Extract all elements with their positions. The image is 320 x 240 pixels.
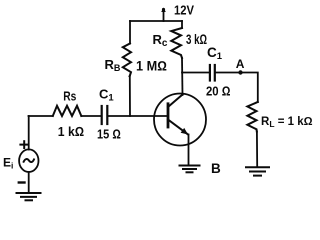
resistor RC 3 kohm bbox=[153, 28, 208, 58]
svg-text:20 Ω: 20 Ω bbox=[206, 83, 231, 98]
svg-text:RB: RB bbox=[105, 57, 121, 73]
wire input left segment bbox=[29, 115, 53, 117]
supply arrow 12V bbox=[161, 3, 194, 21]
wire RC top stub bbox=[181, 21, 183, 28]
ground (source) bbox=[17, 193, 41, 200]
svg-text:B: B bbox=[211, 161, 221, 176]
ground (RL) bbox=[246, 167, 269, 175]
resistor RL 1 kohm bbox=[247, 102, 312, 132]
svg-text:Ei: Ei bbox=[3, 156, 13, 171]
wire source bottom to ground bbox=[28, 172, 30, 193]
resistor Rs 1 kohm bbox=[53, 89, 84, 139]
wire top supply rail bbox=[130, 20, 182, 22]
ground (emitter) bbox=[180, 166, 200, 173]
capacitor C1 output bbox=[206, 45, 231, 98]
svg-text:12V: 12V bbox=[174, 3, 195, 17]
capacitor C1 input bbox=[97, 86, 121, 141]
wire base (capacitor to transistor base bar) bbox=[108, 115, 168, 117]
wire emitter to ground bbox=[188, 135, 190, 166]
wire capacitor to RL corner bbox=[215, 73, 257, 103]
wire collector output to capacitor bbox=[182, 72, 209, 74]
wire RB top stub bbox=[129, 21, 131, 44]
source Ei bbox=[3, 141, 39, 182]
svg-text:3 kΩ: 3 kΩ bbox=[186, 31, 207, 47]
wire collector (RC bottom through output junction into transistor) bbox=[181, 58, 184, 95]
wire RB bottom to base wire bbox=[129, 76, 131, 116]
transistor Q1 bbox=[154, 94, 206, 146]
wire Rs to input capacitor bbox=[81, 115, 101, 117]
svg-text:RL = 1 kΩ: RL = 1 kΩ bbox=[261, 116, 313, 129]
svg-text:15 Ω: 15 Ω bbox=[97, 127, 121, 142]
resistor RB 1 Mohm bbox=[105, 44, 168, 77]
svg-text:1 MΩ: 1 MΩ bbox=[136, 58, 167, 73]
svg-text:Rs: Rs bbox=[63, 89, 76, 104]
svg-text:C1: C1 bbox=[207, 45, 223, 62]
svg-text:A: A bbox=[236, 57, 245, 71]
node A bbox=[236, 57, 245, 75]
svg-text:Rc: Rc bbox=[153, 32, 168, 49]
wire source top (vertical to input wire) bbox=[28, 116, 30, 150]
wire RL bottom to ground bbox=[256, 132, 258, 168]
svg-text:C1: C1 bbox=[99, 86, 114, 103]
svg-text:1 kΩ: 1 kΩ bbox=[58, 124, 84, 139]
